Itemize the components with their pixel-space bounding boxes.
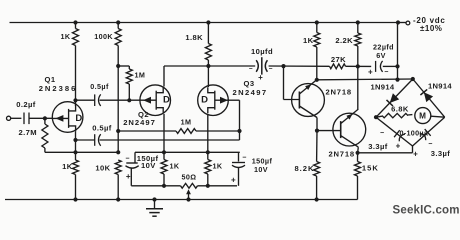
transistor Q3 2N2497 JFET mirrored xyxy=(198,85,229,116)
wire 2.2K down to Q5 emitter xyxy=(357,66,359,109)
svg-text:Q3: Q3 xyxy=(244,79,255,88)
resistor 1.8K common drain load xyxy=(205,44,211,61)
resistor 15K Q5 collector load xyxy=(357,153,359,162)
node 1M to Q3 gate junction xyxy=(237,129,241,133)
svg-text:2N718: 2N718 xyxy=(329,149,355,158)
resistor 1K drain load Q1 xyxy=(73,29,79,46)
svg-text:2.2K: 2.2K xyxy=(335,36,353,45)
resistor 6.8K meter series xyxy=(376,116,382,117)
wire Q4 collector down xyxy=(316,118,318,131)
ground symbol xyxy=(154,200,156,209)
svg-text:+: + xyxy=(396,142,401,151)
node Q1 source to C3 junction xyxy=(73,138,77,142)
svg-text:1M: 1M xyxy=(135,71,146,80)
svg-text:−: − xyxy=(428,141,433,148)
wire rail to 22ufd and bridge xyxy=(397,23,399,80)
resistor 1K source Q3 xyxy=(205,160,211,175)
svg-text:D: D xyxy=(75,113,82,124)
svg-text:0.2µf: 0.2µf xyxy=(16,100,36,109)
svg-text:50Ω: 50Ω xyxy=(182,173,197,182)
svg-text:3.3µf: 3.3µf xyxy=(431,149,451,158)
diode D1 1N914 left arm xyxy=(376,79,413,117)
transistor Q1 2N2386 JFET xyxy=(52,102,83,133)
wire bridge bottom to Q5 collector xyxy=(412,146,414,153)
wire Q1 source bias row xyxy=(45,151,118,153)
svg-text:+: + xyxy=(231,176,236,185)
svg-text:2N2497: 2N2497 xyxy=(232,88,267,97)
svg-text:1K: 1K xyxy=(61,32,71,41)
node bottom rail junction dots xyxy=(73,197,77,201)
svg-text:−: − xyxy=(380,130,385,137)
transistor Q4 2N718 xyxy=(292,80,325,118)
svg-text:−: − xyxy=(125,156,130,163)
resistor 1M horizontal Q3 gate bias xyxy=(118,130,176,132)
capacitor 10ufd coupling to Q4 xyxy=(208,65,255,67)
capacitor C1 0.2uf input xyxy=(23,113,25,125)
svg-text:−: − xyxy=(269,66,273,73)
svg-text:SeekIC.com: SeekIC.com xyxy=(393,205,460,217)
wire Q1 source down xyxy=(75,132,77,153)
svg-text:6.8K: 6.8K xyxy=(391,105,409,114)
wire C1 to gate node xyxy=(29,117,53,119)
svg-text:±10%: ±10% xyxy=(420,24,442,33)
transistor Q5 2N718 xyxy=(333,109,366,147)
svg-text:27K: 27K xyxy=(331,55,346,64)
wiper arrow 50 ohm to ground xyxy=(188,193,190,200)
wire Q2 drain up and over to 1.8K xyxy=(163,66,165,87)
svg-text:D: D xyxy=(201,95,208,106)
node 1.8K bottom junction xyxy=(206,64,210,68)
wire Q3 gate jog right and down xyxy=(228,99,239,101)
node Q5 collector junction xyxy=(356,151,360,155)
svg-text:8.2K: 8.2K xyxy=(294,164,314,173)
svg-text:+: + xyxy=(258,73,263,82)
terminal -20vdc output xyxy=(398,22,406,24)
svg-text:3.3µf: 3.3µf xyxy=(368,142,388,151)
svg-text:1M: 1M xyxy=(181,118,192,127)
svg-text:1K: 1K xyxy=(213,162,223,171)
resistor 1K emitter Q4 xyxy=(314,33,320,48)
svg-text:−: − xyxy=(242,154,247,161)
wire bottom ground rail xyxy=(5,199,358,201)
svg-text:+: + xyxy=(368,67,373,76)
svg-text:1K: 1K xyxy=(62,162,73,171)
resistor 8.2K Q4 collector load xyxy=(316,131,318,162)
wire Q5 base xyxy=(317,130,341,132)
wire Q3 source down xyxy=(207,114,209,152)
svg-text:1K: 1K xyxy=(303,36,314,45)
svg-text:+: + xyxy=(413,150,418,159)
svg-text:10V: 10V xyxy=(254,165,268,174)
resistor 27K feedback xyxy=(330,64,346,69)
meter M 0-100ua xyxy=(415,108,431,124)
svg-text:−: − xyxy=(249,66,253,73)
svg-text:2N2386: 2N2386 xyxy=(39,84,78,93)
svg-text:−: − xyxy=(384,69,389,76)
svg-text:6V: 6V xyxy=(376,51,386,60)
node bias to source row junction xyxy=(116,150,120,154)
svg-text:D: D xyxy=(163,95,170,106)
wire source resistor bottom row xyxy=(131,185,180,187)
wire diff pair source row xyxy=(135,151,240,153)
resistor 100K xyxy=(115,29,121,46)
svg-text:100K: 100K xyxy=(94,32,113,41)
wire top supply rail xyxy=(10,22,399,24)
resistor 1M vertical Q2 gate bias xyxy=(118,65,129,67)
resistor 2.2K emitter Q5 xyxy=(355,33,361,46)
svg-text:1N914: 1N914 xyxy=(371,82,395,91)
wire Q5 collector to node xyxy=(357,147,360,153)
wire input to C1 xyxy=(11,117,22,119)
diode D2 1N914 right arm xyxy=(413,79,445,117)
resistor 10K bias divider xyxy=(115,160,121,175)
svg-text:0.5µf: 0.5µf xyxy=(90,82,109,91)
node 100K bottom junction xyxy=(116,64,120,68)
wire Q4 emitter to bridge top xyxy=(317,78,413,81)
svg-text:0.5µf: 0.5µf xyxy=(92,123,112,132)
node Q4 emitter junction xyxy=(315,78,319,82)
svg-text:1.8K: 1.8K xyxy=(185,33,203,42)
terminal input xyxy=(7,116,11,120)
node bridge top xyxy=(411,77,415,81)
node top rail junction dots xyxy=(73,20,77,24)
svg-text:0-100µa: 0-100µa xyxy=(400,129,429,138)
svg-text:2N2497: 2N2497 xyxy=(123,118,156,127)
resistor 1K source Q1 xyxy=(73,150,77,154)
svg-text:M: M xyxy=(419,112,426,121)
capacitor 22ufd 6V xyxy=(375,61,377,72)
node 1M vertical bottom junction xyxy=(127,98,131,102)
capacitor C2 0.5uf coupling Q1 drain to Q2 gate xyxy=(76,99,95,101)
node gate Q1 xyxy=(43,116,47,120)
resistor 1K source Q2 xyxy=(161,160,167,175)
svg-text:10V: 10V xyxy=(141,161,156,170)
node 1M horizontal left junction xyxy=(116,129,120,133)
svg-text:2N718: 2N718 xyxy=(326,88,352,97)
potentiometer 50 ohm balance xyxy=(181,183,198,188)
node Q1 drain to C2 junction xyxy=(73,98,77,102)
resistor 2.7M gate leak xyxy=(44,118,46,124)
svg-text:2.7M: 2.7M xyxy=(19,128,37,137)
svg-text:10K: 10K xyxy=(95,164,110,173)
capacitor 3.3uf left bottom arm xyxy=(376,117,413,146)
capacitor 3.3uf right bottom arm xyxy=(413,117,445,146)
node 2.2K bottom junction xyxy=(356,64,360,68)
transistor Q2 2N2497 JFET xyxy=(140,85,171,116)
svg-text:15K: 15K xyxy=(362,164,379,173)
svg-text:+: + xyxy=(126,172,131,181)
wire node A down to Q4 base xyxy=(283,66,285,99)
svg-text:10µfd: 10µfd xyxy=(251,47,273,56)
capacitor 150uf 10V bypass Q3 source xyxy=(238,152,240,161)
node A 10ufd to Q4 base junction xyxy=(281,64,285,68)
node bridge left xyxy=(374,115,378,119)
svg-text:1K: 1K xyxy=(170,162,180,171)
capacitor 150uf 10V bypass Q2 source xyxy=(134,152,136,163)
wire Q2 source down xyxy=(163,114,165,152)
capacitor C3 0.5uf coupling Q1 source to Q3 gate xyxy=(76,139,95,141)
node Q4 collector to Q5 base xyxy=(315,129,319,133)
svg-text:Q1: Q1 xyxy=(45,75,56,84)
svg-text:1N914: 1N914 xyxy=(428,82,452,91)
